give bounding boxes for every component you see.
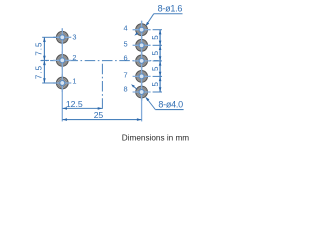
pad 5: [133, 36, 151, 54]
pad 6: [133, 52, 151, 70]
svg-text:8-ø1.6: 8-ø1.6: [158, 4, 183, 14]
svg-text:5: 5: [151, 66, 160, 71]
pad 4: [133, 21, 151, 39]
svg-text:5: 5: [151, 35, 160, 40]
svg-text:6: 6: [123, 53, 127, 62]
svg-text:8: 8: [123, 85, 127, 94]
dimension 25: [62, 118, 141, 121]
svg-text:12.5: 12.5: [66, 99, 83, 109]
svg-text:1: 1: [72, 77, 76, 86]
svg-text:5: 5: [151, 81, 160, 86]
svg-text:7.5: 7.5: [34, 42, 43, 56]
svg-text:7.5: 7.5: [34, 65, 43, 79]
left column center line: [61, 28, 63, 121]
pad 3: [53, 28, 71, 46]
pad 8: [133, 83, 151, 101]
pad 2: [53, 51, 71, 69]
svg-text:5: 5: [123, 39, 127, 48]
svg-text:4: 4: [123, 24, 127, 33]
svg-text:7: 7: [123, 70, 127, 79]
label 8-dia1.6 leader: [134, 14, 182, 36]
pad 7: [133, 67, 151, 85]
svg-text:25: 25: [94, 110, 104, 120]
label 8-dia4.0 leader: [131, 84, 184, 109]
svg-text:5: 5: [151, 50, 160, 55]
vertical mid center line: [101, 61, 103, 109]
dimension 12.5: [62, 107, 102, 110]
svg-text:Dimensions in mm: Dimensions in mm: [122, 133, 190, 142]
right column center line: [141, 21, 143, 122]
horizontal center line: [41, 60, 159, 62]
dimension 7.5 lines: [41, 37, 56, 83]
svg-text:3: 3: [72, 32, 76, 41]
svg-text:8-ø4.0: 8-ø4.0: [158, 100, 183, 110]
svg-text:2: 2: [72, 53, 76, 62]
pad 1: [53, 74, 71, 92]
dimension 5 lines: [153, 30, 162, 92]
